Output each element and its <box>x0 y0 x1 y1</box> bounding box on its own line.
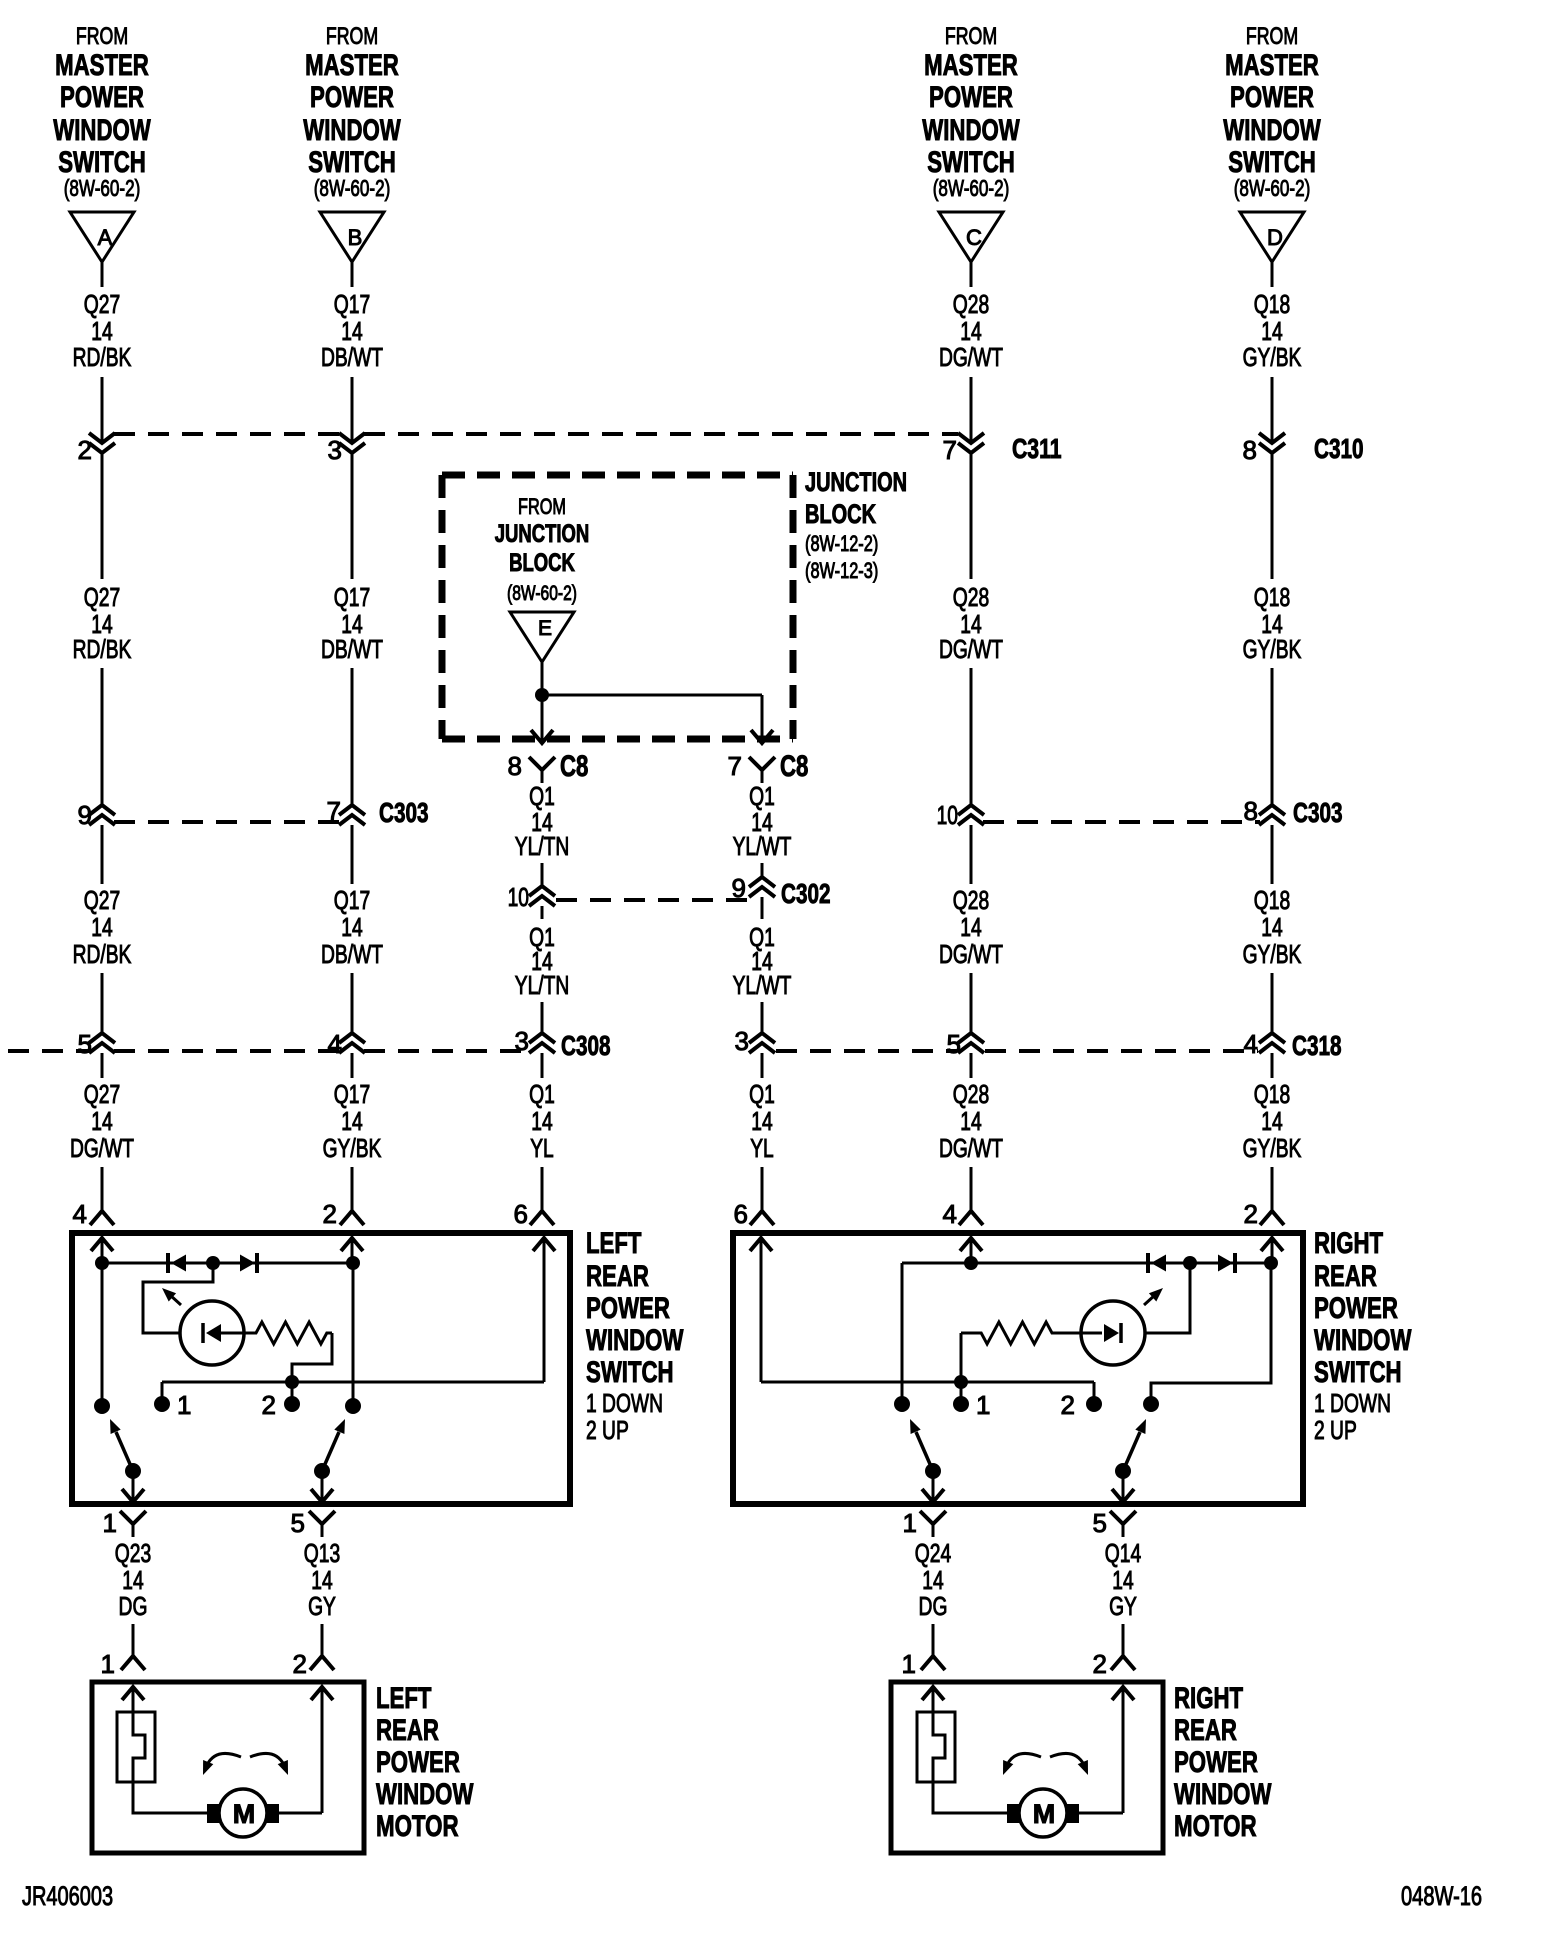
wire <box>761 1167 764 1211</box>
lamp arrow <box>162 1288 181 1305</box>
wire <box>1145 1263 1190 1333</box>
svg-text:POWER: POWER <box>586 1292 670 1325</box>
svg-text:14: 14 <box>91 912 112 942</box>
wire label Q18 14 GY/BK <box>1243 289 1302 372</box>
wire <box>133 1782 207 1813</box>
svg-text:Q1: Q1 <box>749 1079 775 1109</box>
connector pin 5 col C <box>947 1029 984 1059</box>
svg-text:14: 14 <box>960 912 981 942</box>
wire label Q17 14 GY/BK <box>323 1079 382 1163</box>
wire <box>351 973 354 1033</box>
rotation arrow right <box>250 1753 288 1775</box>
connector pin 5 <box>1093 1508 1136 1538</box>
wire <box>960 1333 963 1382</box>
svg-text:RD/BK: RD/BK <box>73 342 132 372</box>
contact dot 1 <box>953 1390 990 1420</box>
right rear power window switch box <box>733 1233 1303 1504</box>
wire <box>1151 1263 1271 1404</box>
wire label Q18 14 GY/BK <box>1243 582 1302 664</box>
wire <box>761 897 764 919</box>
svg-text:14: 14 <box>341 912 362 942</box>
svg-text:3: 3 <box>515 1026 529 1056</box>
motor pin 2 female connector <box>1093 1649 1135 1679</box>
svg-text:Q23: Q23 <box>115 1538 151 1568</box>
dashed takeout line C303 left <box>114 820 340 824</box>
svg-text:DG/WT: DG/WT <box>939 342 1003 372</box>
wire <box>541 906 544 919</box>
svg-text:048W-16: 048W-16 <box>1401 1881 1482 1911</box>
header label FROM MASTER POWER WINDOW SWITCH col C <box>922 23 1020 201</box>
wire <box>351 1053 354 1078</box>
wire <box>352 1263 355 1406</box>
svg-text:M: M <box>233 1799 256 1829</box>
contact dot 1 <box>154 1390 191 1420</box>
svg-text:8: 8 <box>1243 435 1257 465</box>
wire label Q27 14 RD/BK <box>73 885 132 969</box>
resistor R1 <box>244 1322 332 1344</box>
svg-text:YL/WT: YL/WT <box>733 970 792 1000</box>
wire <box>1122 1624 1125 1650</box>
wire <box>970 377 973 443</box>
svg-text:REAR: REAR <box>1314 1260 1377 1293</box>
svg-text:BLOCK: BLOCK <box>805 499 876 529</box>
wire label Q24 14 DG <box>915 1538 951 1621</box>
wire <box>761 695 764 743</box>
wire <box>542 694 762 697</box>
wire label Q17 14 DB/WT <box>321 582 383 664</box>
motor pin 2 female connector <box>293 1649 334 1679</box>
wire label Q27 14 RD/BK <box>73 289 132 372</box>
svg-text:2: 2 <box>262 1390 276 1420</box>
connector pin 1 <box>903 1508 946 1538</box>
wire label Q27 14 RD/BK <box>73 582 132 664</box>
svg-text:RD/BK: RD/BK <box>73 939 132 969</box>
wire <box>1271 1053 1274 1078</box>
motor brush <box>207 1804 220 1823</box>
svg-text:GY/BK: GY/BK <box>323 1133 382 1163</box>
connector C318 pin 4 <box>1244 1029 1342 1061</box>
svg-text:2: 2 <box>293 1649 307 1679</box>
rotation arrow right <box>1050 1753 1088 1775</box>
dashed takeout line C303 right <box>983 820 1260 824</box>
svg-text:WINDOW: WINDOW <box>1223 114 1321 147</box>
svg-text:Q17: Q17 <box>334 1079 370 1109</box>
svg-text:7: 7 <box>943 435 957 465</box>
svg-text:5: 5 <box>1093 1508 1107 1538</box>
switch pivot dot <box>925 1463 941 1479</box>
svg-text:Q17: Q17 <box>334 289 370 319</box>
connector pin 3 col B <box>328 433 365 465</box>
svg-text:DB/WT: DB/WT <box>321 342 383 372</box>
svg-text:POWER: POWER <box>1174 1746 1258 1779</box>
svg-text:C318: C318 <box>1292 1030 1342 1061</box>
junction block outside label <box>805 467 907 583</box>
svg-text:DB/WT: DB/WT <box>321 939 383 969</box>
circuit breaker <box>917 1712 955 1782</box>
wire <box>132 1624 135 1650</box>
wire label Q1 14 YL/WT <box>733 922 792 1000</box>
svg-text:LEFT: LEFT <box>586 1227 642 1260</box>
from junction block inside label <box>495 494 590 605</box>
svg-text:4: 4 <box>328 1029 342 1059</box>
svg-text:POWER: POWER <box>1230 81 1314 114</box>
left switch label <box>586 1227 684 1445</box>
svg-text:Q14: Q14 <box>1105 1538 1141 1568</box>
common contact dot <box>894 1396 910 1412</box>
wire <box>970 668 973 805</box>
wire <box>970 1167 973 1211</box>
circuit breaker <box>117 1712 155 1782</box>
svg-text:SWITCH: SWITCH <box>1314 1356 1402 1389</box>
svg-text:DG: DG <box>919 1591 948 1621</box>
svg-text:MASTER: MASTER <box>55 49 149 82</box>
left motor label <box>376 1682 474 1843</box>
svg-text:JUNCTION: JUNCTION <box>495 520 590 548</box>
junction block dashed box <box>442 475 793 739</box>
dashed takeout line C302 <box>556 898 748 902</box>
wire <box>161 1382 164 1404</box>
svg-text:DG/WT: DG/WT <box>939 1133 1003 1163</box>
wire label Q1 14 YL <box>749 1079 775 1163</box>
svg-text:3: 3 <box>328 435 342 465</box>
switch pin 2 female connector <box>1244 1199 1284 1229</box>
male arrow pin 6 <box>533 1238 555 1382</box>
svg-text:C311: C311 <box>1012 433 1062 464</box>
wire <box>541 695 544 743</box>
junction dot <box>535 688 549 702</box>
connector pin 4 col B <box>328 1029 365 1059</box>
wire label Q28 14 DG/WT <box>939 885 1003 969</box>
svg-text:10: 10 <box>508 882 529 912</box>
svg-text:POWER: POWER <box>929 81 1013 114</box>
dashed takeout line C308 left <box>8 1049 528 1053</box>
wire <box>321 1471 324 1502</box>
svg-text:1: 1 <box>902 1649 916 1679</box>
switch arm <box>110 1419 133 1471</box>
right rear power window motor box <box>891 1682 1163 1853</box>
svg-text:2: 2 <box>1093 1649 1107 1679</box>
triangle takeout D <box>1240 212 1304 262</box>
svg-text:2: 2 <box>323 1199 337 1229</box>
svg-text:YL/TN: YL/TN <box>515 831 570 861</box>
wire label Q28 14 DG/WT <box>939 1079 1003 1163</box>
svg-text:WINDOW: WINDOW <box>1314 1324 1412 1357</box>
connector C302 pin 9 <box>732 873 831 909</box>
svg-text:(8W-60-2): (8W-60-2) <box>933 175 1010 201</box>
svg-text:C303: C303 <box>1293 797 1343 828</box>
wire <box>351 453 354 579</box>
wire <box>143 1263 213 1333</box>
svg-text:RD/BK: RD/BK <box>73 634 132 664</box>
svg-text:C303: C303 <box>379 797 429 828</box>
switch pin 6 female connector <box>514 1199 554 1229</box>
wire <box>1271 973 1274 1033</box>
svg-text:Q17: Q17 <box>334 885 370 915</box>
switch pivot dot <box>314 1463 330 1479</box>
junction dot <box>95 1256 109 1270</box>
svg-text:B: B <box>348 225 363 250</box>
svg-text:YL/TN: YL/TN <box>515 970 570 1000</box>
svg-text:1 DOWN: 1 DOWN <box>586 1388 663 1418</box>
wire <box>970 1053 973 1078</box>
svg-text:Q27: Q27 <box>84 582 120 612</box>
male arrow pin 1 <box>122 1489 144 1502</box>
male arrow pin 2 <box>341 1238 363 1263</box>
connector pin 1 <box>103 1508 146 1538</box>
rotation arrow left <box>1003 1753 1041 1775</box>
wire <box>101 973 104 1033</box>
switch pin 2 female connector <box>323 1199 364 1229</box>
wire <box>351 668 354 805</box>
svg-text:GY/BK: GY/BK <box>1243 1133 1302 1163</box>
connector pin 5 col A <box>78 1029 115 1059</box>
wire label Q1 14 YL <box>529 1079 555 1163</box>
svg-text:POWER: POWER <box>1314 1292 1398 1325</box>
svg-text:Q27: Q27 <box>84 885 120 915</box>
connector C8 pin 7 <box>728 750 809 783</box>
svg-text:(8W-60-2): (8W-60-2) <box>64 175 141 201</box>
wire <box>970 262 973 287</box>
svg-text:MASTER: MASTER <box>924 49 1018 82</box>
svg-text:DG/WT: DG/WT <box>939 939 1003 969</box>
male arrow at junction block <box>751 730 773 743</box>
svg-text:(8W-12-2): (8W-12-2) <box>805 531 878 556</box>
wire <box>132 1471 135 1502</box>
junction dot <box>1183 1256 1197 1270</box>
male arrow pin 6 <box>750 1238 772 1382</box>
svg-text:M: M <box>1033 1799 1056 1829</box>
svg-text:2: 2 <box>78 435 92 465</box>
switch pivot dot <box>1115 1463 1131 1479</box>
wire <box>101 377 104 443</box>
wire label Q17 14 DB/WT <box>321 289 383 372</box>
junction dot <box>954 1375 968 1389</box>
motor pin 1 female connector <box>902 1649 945 1679</box>
switch arm <box>322 1419 345 1471</box>
svg-text:Q17: Q17 <box>334 582 370 612</box>
svg-text:C: C <box>966 225 982 250</box>
svg-text:GY: GY <box>1109 1591 1137 1621</box>
svg-text:REAR: REAR <box>586 1260 649 1293</box>
indicator lamp <box>180 1301 244 1365</box>
svg-text:MASTER: MASTER <box>1225 49 1319 82</box>
svg-text:Q28: Q28 <box>953 582 989 612</box>
wire <box>933 1782 1007 1813</box>
wire <box>541 662 544 695</box>
svg-text:14: 14 <box>531 1106 552 1136</box>
wire <box>970 973 973 1033</box>
svg-text:MASTER: MASTER <box>305 49 399 82</box>
junction dot <box>206 1256 220 1270</box>
svg-text:Q27: Q27 <box>84 289 120 319</box>
svg-text:DG/WT: DG/WT <box>70 1133 134 1163</box>
svg-text:14: 14 <box>751 1106 772 1136</box>
indicator lamp <box>1081 1301 1145 1365</box>
svg-text:5: 5 <box>947 1029 961 1059</box>
wire <box>1093 1382 1096 1404</box>
header label FROM MASTER POWER WINDOW SWITCH col A <box>53 23 151 201</box>
triangle takeout C <box>939 212 1003 262</box>
wire <box>761 1002 764 1033</box>
lamp arrow <box>1144 1288 1163 1305</box>
svg-text:YL: YL <box>750 1133 774 1163</box>
contact dot 2 <box>1061 1390 1102 1420</box>
svg-text:Q13: Q13 <box>304 1538 340 1568</box>
svg-text:WINDOW: WINDOW <box>53 114 151 147</box>
wire <box>292 1333 332 1382</box>
diode D1 <box>168 1253 186 1273</box>
wire <box>1271 262 1274 287</box>
svg-text:E: E <box>538 617 552 640</box>
wire <box>1122 1471 1125 1502</box>
junction dot <box>346 1256 360 1270</box>
svg-text:1: 1 <box>103 1508 117 1538</box>
svg-text:C308: C308 <box>561 1030 611 1061</box>
svg-text:4: 4 <box>73 1199 87 1229</box>
svg-text:14: 14 <box>91 1106 112 1136</box>
svg-text:RIGHT: RIGHT <box>1314 1227 1383 1260</box>
lamp diode <box>203 1323 244 1343</box>
svg-text:MOTOR: MOTOR <box>1174 1810 1257 1843</box>
svg-text:Q27: Q27 <box>84 1079 120 1109</box>
svg-text:1: 1 <box>177 1390 191 1420</box>
switch pin 4 female connector <box>943 1199 983 1229</box>
wire label Q18 14 GY/BK <box>1243 885 1302 969</box>
diode D2 <box>240 1253 257 1273</box>
diode D3 <box>1148 1253 1166 1273</box>
wire <box>541 1167 544 1211</box>
common contact dot <box>345 1398 361 1414</box>
male arrow at junction block <box>531 730 553 743</box>
right switch label <box>1314 1227 1412 1445</box>
svg-text:Q24: Q24 <box>915 1538 951 1568</box>
svg-text:DB/WT: DB/WT <box>321 634 383 664</box>
svg-text:Q1: Q1 <box>529 1079 555 1109</box>
svg-text:REAR: REAR <box>376 1714 439 1747</box>
svg-text:POWER: POWER <box>60 81 144 114</box>
svg-text:FROM: FROM <box>76 23 128 50</box>
contact dot 2 <box>262 1390 300 1420</box>
svg-text:5: 5 <box>78 1029 92 1059</box>
right motor label <box>1174 1682 1272 1843</box>
wire <box>101 453 104 579</box>
svg-text:4: 4 <box>1244 1029 1258 1059</box>
left rear power window motor box <box>92 1682 364 1853</box>
common contact dot <box>1143 1396 1159 1412</box>
male arrow pin 2 <box>1112 1687 1134 1813</box>
wire label Q23 14 DG <box>115 1538 151 1621</box>
male arrow pin 4 <box>960 1238 982 1263</box>
motor pin 1 female connector <box>101 1649 145 1679</box>
wire label Q13 14 GY <box>304 1538 340 1621</box>
wire <box>102 1262 353 1265</box>
svg-text:SWITCH: SWITCH <box>586 1356 674 1389</box>
svg-text:FROM: FROM <box>518 494 566 519</box>
wire <box>970 453 973 579</box>
svg-text:2 UP: 2 UP <box>1314 1415 1357 1445</box>
svg-text:GY/BK: GY/BK <box>1243 939 1302 969</box>
wire label Q1 14 YL/TN <box>515 781 570 861</box>
wire <box>101 262 104 287</box>
svg-text:Q28: Q28 <box>953 1079 989 1109</box>
svg-text:1 DOWN: 1 DOWN <box>1314 1388 1391 1418</box>
junction dot <box>1264 1256 1278 1270</box>
connector C310 pin 8 <box>1243 433 1364 465</box>
svg-text:1: 1 <box>903 1508 917 1538</box>
wire <box>901 1263 904 1404</box>
male arrow pin 4 <box>91 1238 113 1263</box>
triangle takeout A <box>70 212 134 262</box>
svg-text:7: 7 <box>327 796 341 826</box>
svg-text:6: 6 <box>734 1199 748 1229</box>
motor brush <box>266 1804 279 1823</box>
wire <box>932 1471 935 1502</box>
svg-text:DG: DG <box>119 1591 148 1621</box>
header label FROM MASTER POWER WINDOW SWITCH col B <box>303 23 401 201</box>
wire <box>541 1053 544 1078</box>
svg-text:1: 1 <box>976 1390 990 1420</box>
svg-text:Q28: Q28 <box>953 289 989 319</box>
wire <box>761 1381 1094 1384</box>
wire <box>291 1382 294 1404</box>
wire <box>541 863 544 886</box>
svg-text:GY: GY <box>308 1591 336 1621</box>
motor M1 <box>219 1789 267 1837</box>
junction dot <box>285 1375 299 1389</box>
svg-text:(8W-60-2): (8W-60-2) <box>507 582 577 605</box>
svg-text:MOTOR: MOTOR <box>376 1810 459 1843</box>
svg-text:YL/WT: YL/WT <box>733 831 792 861</box>
svg-text:9: 9 <box>78 800 92 830</box>
svg-text:POWER: POWER <box>310 81 394 114</box>
switch arm <box>910 1419 933 1471</box>
wire <box>101 1263 104 1406</box>
svg-text:(8W-60-2): (8W-60-2) <box>1234 175 1311 201</box>
resistor R2 <box>961 1322 1081 1344</box>
wire <box>960 1382 963 1404</box>
svg-text:WINDOW: WINDOW <box>303 114 401 147</box>
motor brush <box>1007 1804 1020 1823</box>
svg-text:POWER: POWER <box>376 1746 460 1779</box>
connector pin 3 mid right <box>735 1026 775 1056</box>
svg-text:BLOCK: BLOCK <box>509 549 575 577</box>
svg-text:WINDOW: WINDOW <box>1174 1778 1272 1811</box>
switch pin 4 female connector <box>73 1199 114 1229</box>
wire <box>351 262 354 287</box>
svg-text:5: 5 <box>291 1508 305 1538</box>
svg-text:7: 7 <box>728 751 742 781</box>
svg-text:14: 14 <box>1261 1106 1282 1136</box>
connector pin 2 col A <box>78 433 115 465</box>
svg-text:2 UP: 2 UP <box>586 1415 629 1445</box>
connector pin 5 <box>291 1508 335 1538</box>
svg-text:(8W-60-2): (8W-60-2) <box>314 175 391 201</box>
wire <box>321 1624 324 1650</box>
svg-text:WINDOW: WINDOW <box>586 1324 684 1357</box>
svg-text:JUNCTION: JUNCTION <box>805 467 907 497</box>
svg-text:Q18: Q18 <box>1254 1079 1290 1109</box>
svg-text:YL: YL <box>530 1133 554 1163</box>
connector C311 pin 7 <box>943 433 1062 465</box>
svg-text:10: 10 <box>937 800 958 830</box>
wire <box>1271 453 1274 579</box>
connector C8 pin 8 <box>508 750 589 783</box>
svg-text:Q18: Q18 <box>1254 885 1290 915</box>
wire label Q27 14 DG/WT <box>70 1079 134 1163</box>
male arrow pin 1 <box>922 1687 944 1712</box>
svg-text:GY/BK: GY/BK <box>1243 342 1302 372</box>
svg-text:14: 14 <box>960 1106 981 1136</box>
